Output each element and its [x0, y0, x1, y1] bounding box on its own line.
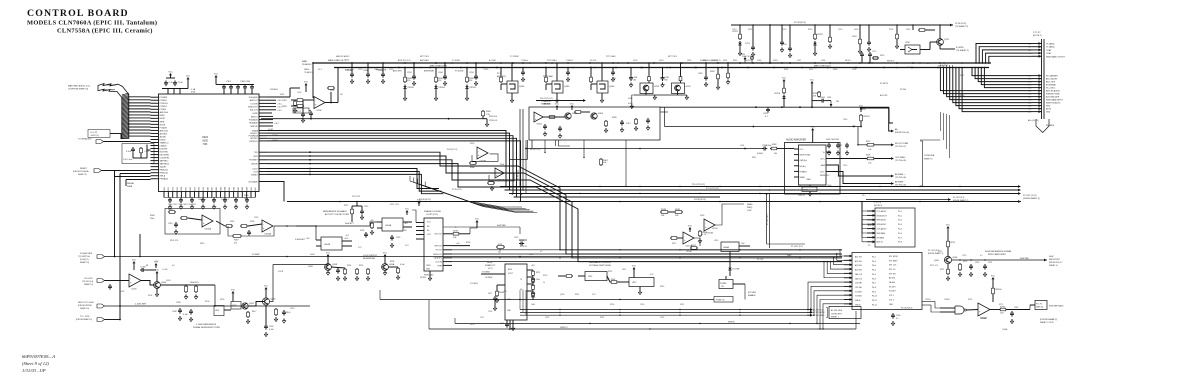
ground	[195, 295, 197, 297]
svg-text:U203: U203	[120, 291, 124, 293]
svg-text:DATA+: DATA+	[304, 68, 310, 71]
ground	[302, 118, 304, 120]
resistor	[500, 76, 502, 77]
svg-text:R311: R311	[752, 157, 756, 159]
ground	[327, 271, 329, 273]
svg-text:B41: B41	[212, 187, 214, 190]
res above bus x873	[873, 57, 879, 59]
svg-text:ANTI RX AUDIO: ANTI RX AUDIO	[1046, 90, 1060, 93]
wire rows group A to staircase	[267, 131, 506, 187]
resistor	[371, 222, 373, 223]
svg-text:R267: R267	[809, 69, 813, 71]
svg-text:R228: R228	[498, 244, 502, 246]
svg-text:U206: U206	[317, 110, 323, 112]
capacitor	[630, 75, 632, 77]
svg-text:13.8kHZ: 13.8kHZ	[252, 254, 260, 256]
svg-text:R268: R268	[833, 69, 837, 71]
svg-text:C286: C286	[628, 98, 632, 100]
ground	[283, 319, 285, 321]
chain CR252	[739, 25, 741, 33]
svg-text:B42: B42	[216, 187, 218, 190]
svg-text:CNTRL/SHT: CNTRL/SHT	[831, 314, 842, 316]
svg-text:PCMCLK: PCMCLK	[160, 103, 169, 105]
svg-text:1.5k 1.0uF: 1.5k 1.0uF	[123, 159, 133, 161]
svg-text:(FROM VOL/BLA: (FROM VOL/BLA	[73, 170, 89, 173]
svg-text:BYPASS: BYPASS	[800, 170, 808, 173]
svg-text:C220: C220	[962, 255, 966, 257]
svg-text:WSPLIF: WSPLIF	[250, 126, 258, 128]
svg-text:R229: R229	[536, 272, 540, 274]
capacitor	[522, 70, 524, 72]
capacitor	[567, 70, 569, 72]
capacitor	[361, 209, 363, 211]
svg-text:C299 0.05: C299 0.05	[489, 120, 497, 122]
svg-text:H30: H30	[203, 143, 208, 146]
svg-text:SPARES: SPARES	[1046, 124, 1055, 127]
svg-text:R229: R229	[543, 275, 547, 277]
svg-text:(FROM P14+26): (FROM P14+26)	[895, 132, 909, 134]
transistor G253	[648, 63, 650, 75]
svg-text:TONE A: TONE A	[521, 59, 528, 62]
svg-text:C256: C256	[474, 78, 478, 80]
diode pair above bus x745	[744, 56, 746, 63]
svg-text:2.2uF: 2.2uF	[177, 82, 183, 84]
svg-text:(TO P14+26): (TO P14+26)	[895, 160, 906, 162]
svg-text:P2 IN (9:21): P2 IN (9:21)	[955, 23, 967, 25]
ground	[466, 96, 468, 98]
svg-text:CS1 SEL: CS1 SEL	[855, 287, 862, 289]
capacitor	[302, 112, 304, 114]
svg-text:C268: C268	[821, 60, 825, 62]
svg-text:MAIN RX AUDIO: MAIN RX AUDIO	[336, 55, 350, 58]
resistor R249	[674, 211, 675, 213]
svg-text:SHEET 1: SHEET 1	[831, 317, 839, 319]
capacitor	[475, 74, 477, 76]
svg-text:C317: C317	[626, 123, 631, 125]
svg-text:POWSET: POWSET	[249, 160, 258, 162]
svg-text:0.1uF: 0.1uF	[269, 329, 275, 331]
svg-text:VCC: VCC	[214, 73, 219, 75]
svg-text:R244: R244	[611, 279, 615, 281]
svg-text:ARTS: ARTS	[1046, 108, 1052, 111]
capacitor	[223, 85, 225, 87]
svg-text:R269: R269	[880, 55, 884, 57]
svg-text:DMOSI: DMOSI	[251, 164, 258, 166]
svg-text:C2R1: C2R1	[732, 29, 737, 31]
svg-text:DATA: DATA	[127, 185, 133, 188]
svg-text:(FROM SHEET 2): (FROM SHEET 2)	[1023, 198, 1040, 200]
resistor	[469, 162, 470, 164]
power VCC	[265, 289, 267, 292]
svg-text:R251: R251	[680, 304, 684, 306]
svg-text:0.1uF: 0.1uF	[183, 314, 189, 316]
resistor	[482, 110, 484, 111]
ground	[605, 128, 607, 130]
svg-text:U204B: U204B	[324, 244, 331, 246]
resistor	[872, 57, 873, 59]
svg-text:TX + D/TS: TX + D/TS	[80, 316, 90, 318]
ground	[213, 205, 215, 207]
svg-text:B44: B44	[225, 187, 227, 190]
svg-text:C253: C253	[745, 43, 750, 45]
connector J2 pin group 1	[1032, 43, 1042, 45]
svg-text:(TX SHEET 2): (TX SHEET 2)	[956, 50, 969, 52]
svg-text:U210: U210	[714, 240, 718, 242]
ground	[612, 77, 614, 79]
capacitor	[892, 313, 894, 315]
svg-text:PEAK+: PEAK+	[747, 203, 754, 206]
svg-text:R249: R249	[675, 209, 681, 211]
capacitor	[310, 111, 312, 113]
svg-text:C272: C272	[926, 63, 930, 65]
svg-text:P6+5: P6+5	[872, 274, 876, 276]
IC U301 bottom pins	[163, 192, 165, 198]
resistor	[296, 105, 297, 107]
ground	[371, 230, 373, 232]
capacitor	[351, 72, 353, 74]
cap C253	[752, 25, 754, 45]
diode	[814, 41, 816, 43]
q206 emitter resistor	[947, 264, 949, 268]
svg-text:NOTE 2: NOTE 2	[887, 61, 895, 63]
svg-text:U210A: U210A	[686, 250, 692, 253]
svg-text:120k: 120k	[150, 218, 154, 220]
svg-text:LOCK: LOCK	[278, 271, 284, 273]
svg-text:B51: B51	[255, 187, 257, 190]
svg-text:ANTI SPU: ANTI SPU	[497, 75, 506, 78]
capacitor group C311-C314 above IC	[222, 84, 254, 86]
svg-text:TONE B: TONE B	[566, 60, 573, 62]
svg-text:AUX INDICATE: AUX INDICATE	[1046, 96, 1060, 99]
ground	[781, 48, 783, 50]
svg-text:DISCEN: DISCEN	[160, 148, 168, 150]
resistor	[367, 268, 369, 269]
connector J2 bars	[1041, 39, 1043, 119]
svg-text:C251: C251	[374, 69, 378, 71]
svg-text:FLO P1: FLO P1	[91, 132, 99, 134]
svg-text:BUFFERING: BUFFERING	[363, 258, 375, 260]
transistor Q204	[141, 281, 154, 286]
svg-text:R277: R277	[960, 75, 964, 77]
gate box P15 P1	[1035, 301, 1047, 310]
svg-text:C221: C221	[988, 262, 992, 264]
svg-text:AC SPL BUS: AC SPL BUS	[831, 309, 843, 312]
resistor R230	[435, 76, 437, 77]
svg-text:R264: R264	[723, 60, 727, 62]
resistor	[814, 33, 816, 34]
row 9V8K75	[455, 323, 860, 325]
svg-text:R8+7: R8+7	[252, 311, 256, 313]
svg-text:Q255: Q255	[564, 86, 570, 88]
svg-text:VCC: VCC	[555, 103, 560, 105]
resistor	[532, 277, 534, 278]
transistor G303	[591, 113, 597, 119]
svg-text:C266: C266	[757, 60, 761, 62]
wire P5 OUT row	[866, 199, 950, 201]
power VCC	[187, 79, 189, 82]
capacitor	[213, 198, 215, 200]
fan wires into P6 box	[840, 250, 844, 256]
output resistor R276	[990, 309, 999, 311]
svg-text:CR258: CR258	[774, 93, 780, 95]
capacitor	[970, 264, 972, 266]
capacitor	[382, 72, 384, 74]
svg-text:C244: C244	[438, 72, 443, 74]
svg-text:GND: GND	[1046, 112, 1051, 114]
ground	[970, 272, 972, 274]
IC U301 left pins	[151, 96, 159, 98]
svg-text:DINSYC: DINSYC	[272, 140, 279, 142]
svg-text:G303: G303	[598, 113, 604, 115]
bus tap chain CR204	[435, 68, 437, 77]
svg-text:C263: C263	[763, 113, 768, 115]
svg-text:C260: C260	[297, 92, 301, 94]
resistor	[240, 225, 241, 227]
ground	[429, 276, 431, 278]
svg-text:SIGNAL BUFFER/SPLITTER: SIGNAL BUFFER/SPLITTER	[193, 326, 220, 329]
svg-text:MATCHED AUDIO (1:1): MATCHED AUDIO (1:1)	[68, 85, 90, 88]
svg-text:SQDET: SQDET	[160, 167, 168, 169]
svg-text:VCC: VCC	[304, 81, 309, 83]
svg-text:MC IN (9:21): MC IN (9:21)	[530, 149, 541, 151]
row y300	[380, 299, 714, 301]
svg-text:R254: R254	[347, 265, 351, 267]
ground	[556, 98, 558, 100]
svg-text:U302A: U302A	[205, 228, 212, 231]
svg-text:GTL HYS: GTL HYS	[84, 278, 93, 280]
svg-text:WIDE BAND INPUT: WIDE BAND INPUT	[1046, 99, 1064, 102]
wire vertical 520 down to rows	[525, 140, 527, 194]
svg-text:R309: R309	[612, 117, 617, 119]
svg-text:AD3 SIG: AD3 SIG	[855, 264, 862, 267]
resistor	[739, 33, 741, 34]
svg-text:C298 0.1: C298 0.1	[294, 111, 301, 113]
svg-text:U212: U212	[632, 282, 637, 284]
svg-text:DISCAUD: DISCAUD	[249, 96, 259, 99]
svg-text:P6+2: P6+2	[872, 261, 876, 263]
svg-text:C255: C255	[443, 78, 447, 80]
svg-text:-: -	[496, 170, 497, 173]
svg-text:P5+1: P5+1	[898, 211, 902, 213]
svg-text:B33: B33	[177, 187, 179, 190]
resistor	[180, 217, 181, 219]
svg-text:VCC: VCC	[155, 269, 160, 271]
U304B feedback loop	[472, 154, 498, 161]
svg-text:TX/AT: TX/AT	[1046, 52, 1052, 55]
svg-text:U250: U250	[906, 29, 910, 31]
ground	[202, 205, 204, 207]
svg-text:B45: B45	[229, 187, 231, 190]
svg-text:B34: B34	[181, 187, 183, 190]
svg-text:CS0 SEL: CS0 SEL	[855, 283, 862, 285]
bus tap res x718	[717, 68, 719, 74]
resistor	[727, 72, 729, 73]
svg-text:R248: R248	[661, 209, 667, 211]
ground	[180, 205, 182, 207]
diode CR204	[435, 85, 437, 87]
VCO box	[505, 264, 527, 320]
svg-text:R307: R307	[866, 141, 870, 143]
detector box U204A	[382, 218, 403, 231]
svg-text:SPKO: SPKO	[773, 60, 779, 62]
svg-text:C305 0.1: C305 0.1	[221, 199, 229, 201]
svg-text:U211: U211	[622, 269, 626, 271]
ground	[544, 132, 546, 134]
svg-text:Q254: Q254	[609, 86, 615, 88]
ground	[639, 290, 641, 292]
svg-text:P.TC P1: P.TC P1	[1036, 304, 1042, 306]
svg-text:U205: U205	[426, 265, 431, 267]
resistor	[590, 76, 592, 77]
audio amp bottom SE/BD	[809, 185, 811, 187]
svg-text:B49: B49	[246, 187, 248, 190]
svg-text:R342: R342	[772, 144, 777, 146]
svg-text:SHEET 4): SHEET 4)	[80, 308, 89, 310]
svg-text:U301: U301	[202, 135, 209, 139]
svg-text:ANT+ SPK: ANT+ SPK	[1046, 81, 1056, 84]
transistor Q204	[154, 282, 161, 289]
svg-text:+N.C: +N.C	[345, 235, 350, 237]
svg-text:CR252: CR252	[732, 31, 738, 33]
svg-text:AUX IND: AUX IND	[880, 94, 888, 97]
svg-text:R333: R333	[200, 243, 204, 245]
verticals x937-953 continue below bus	[939, 112, 941, 131]
svg-text:P1 OUT (9:7): P1 OUT (9:7)	[791, 246, 803, 248]
power VCC	[170, 75, 172, 78]
svg-text:4.8: 4.8	[172, 265, 175, 267]
svg-text:R260: R260	[330, 90, 334, 92]
svg-text:SE/BD+ N.C: SE/BD+ N.C	[820, 175, 830, 177]
svg-text:TDATA: TDATA	[252, 129, 259, 132]
svg-text:1.0k: 1.0k	[868, 163, 871, 165]
bus MED LINES	[334, 67, 989, 69]
svg-text:Q204: Q204	[161, 282, 167, 284]
power VCC	[947, 228, 949, 231]
svg-text:C252: C252	[389, 69, 393, 71]
transistor Q203	[262, 298, 269, 305]
resistor	[783, 87, 785, 88]
svg-text:CSAUD: CSAUD	[160, 144, 168, 147]
svg-text:CR203: CR203	[469, 87, 476, 89]
bus tap caps x705	[705, 63, 707, 75]
svg-text:OUT+: OUT+	[820, 159, 825, 161]
svg-text:P6 OUT(9:2): P6 OUT(9:2)	[901, 308, 913, 310]
svg-text:OUT−: OUT−	[820, 172, 825, 174]
svg-text:PINTAUD: PINTAUD	[160, 178, 169, 181]
wires gating outputs down	[544, 140, 546, 152]
svg-text:C216: C216	[488, 311, 492, 313]
ground	[337, 276, 339, 278]
bias network C301 R303	[122, 144, 154, 164]
power VCC	[783, 81, 785, 84]
transistor Q251	[937, 39, 944, 46]
svg-text:DATA REQ: DATA REQ	[434, 257, 443, 260]
power VCC	[327, 256, 329, 259]
power VCC	[155, 265, 157, 268]
svg-text:VCC: VCC	[688, 225, 693, 227]
wire pin CURTAUD route	[259, 182, 284, 202]
svg-text:G254: G254	[633, 60, 637, 62]
svg-text:RX DET: RX DET	[889, 286, 896, 288]
caps row below IC	[164, 197, 255, 199]
svg-text:V+: V+	[823, 152, 825, 154]
svg-text:B37: B37	[194, 187, 196, 190]
svg-text:C215: C215	[364, 206, 368, 208]
svg-text:1/31/03 –UP: 1/31/03 –UP	[22, 368, 46, 373]
svg-text:R243: R243	[608, 271, 612, 273]
power VCC	[232, 293, 234, 296]
transistor G252	[680, 63, 682, 75]
svg-text:MPTT SPU: MPTT SPU	[668, 56, 678, 58]
svg-text:G252: G252	[852, 36, 857, 38]
resistor	[648, 75, 650, 76]
svg-text:SAPSELA: SAPSELA	[160, 163, 170, 166]
svg-text:MPTT SPU: MPTT SPU	[420, 56, 430, 58]
TX audio gating box	[529, 107, 660, 140]
svg-text:C219: C219	[938, 251, 942, 253]
svg-text:VCC: VCC	[991, 275, 996, 277]
svg-text:REF OUT: REF OUT	[435, 246, 442, 248]
audio amp input cap res	[526, 148, 762, 150]
ground	[654, 95, 656, 97]
svg-text:AD SIG: AD SIG	[889, 277, 896, 280]
ground	[247, 319, 249, 321]
svg-text:VOL 1: VOL 1	[889, 295, 894, 297]
svg-text:C308 C309: C308 C309	[240, 81, 251, 83]
svg-text:TX/AT: TX/AT	[1046, 49, 1052, 52]
svg-text:(Sheet 9 of 12): (Sheet 9 of 12)	[22, 361, 49, 366]
cap C213 over rows	[519, 239, 527, 241]
op-amp U304B	[477, 147, 488, 159]
svg-text:CR257: CR257	[817, 34, 823, 36]
diode CR205	[404, 85, 406, 87]
svg-text:C254: C254	[782, 44, 787, 46]
wire rows group B staircase down	[267, 152, 842, 250]
svg-text:(TO/FROM SHEET 4): (TO/FROM SHEET 4)	[68, 88, 88, 90]
svg-text:R241: R241	[575, 294, 579, 296]
svg-text:SHEET 3: SHEET 3	[924, 159, 933, 161]
resistor	[356, 268, 358, 269]
svg-text:GAIN: GAIN	[821, 164, 826, 167]
capacitor	[789, 46, 791, 48]
ground	[705, 82, 707, 84]
svg-text:G304: G304	[537, 124, 543, 126]
svg-text:R274: R274	[968, 299, 972, 301]
svg-text:C234: C234	[469, 72, 474, 74]
svg-text:R234: R234	[360, 230, 364, 232]
svg-text:9kHZ REF: 9kHZ REF	[1020, 258, 1030, 260]
svg-text:9kHZ REF: 9kHZ REF	[497, 225, 507, 227]
svg-text:IN+: IN+	[427, 226, 430, 228]
svg-text:LOOP (PLL): LOOP (PLL)	[426, 214, 438, 216]
extra P2 bus taps	[781, 25, 783, 40]
svg-text:RXD: RXD	[254, 156, 259, 158]
svg-text:R245: R245	[660, 286, 664, 288]
svg-text:Q206: Q206	[934, 260, 939, 262]
svg-text:FLATAUD: FLATAUD	[249, 119, 258, 122]
svg-text:C343 C344 C345: C343 C344 C345	[826, 139, 839, 141]
svg-text:(NOTE 2): (NOTE 2)	[874, 205, 882, 207]
capacitor	[132, 147, 134, 149]
ground	[1011, 319, 1013, 321]
svg-text:100k: 100k	[536, 279, 540, 281]
svg-text:R265: R265	[733, 60, 737, 62]
svg-text:P6 OUT: P6 OUT	[590, 60, 597, 62]
svg-text:VCC: VCC	[859, 105, 864, 107]
svg-text:ACTIVITY DETECTORS: ACTIVITY DETECTORS	[325, 213, 349, 216]
svg-text:48: 48	[146, 265, 148, 267]
svg-text:47k: 47k	[234, 243, 237, 245]
